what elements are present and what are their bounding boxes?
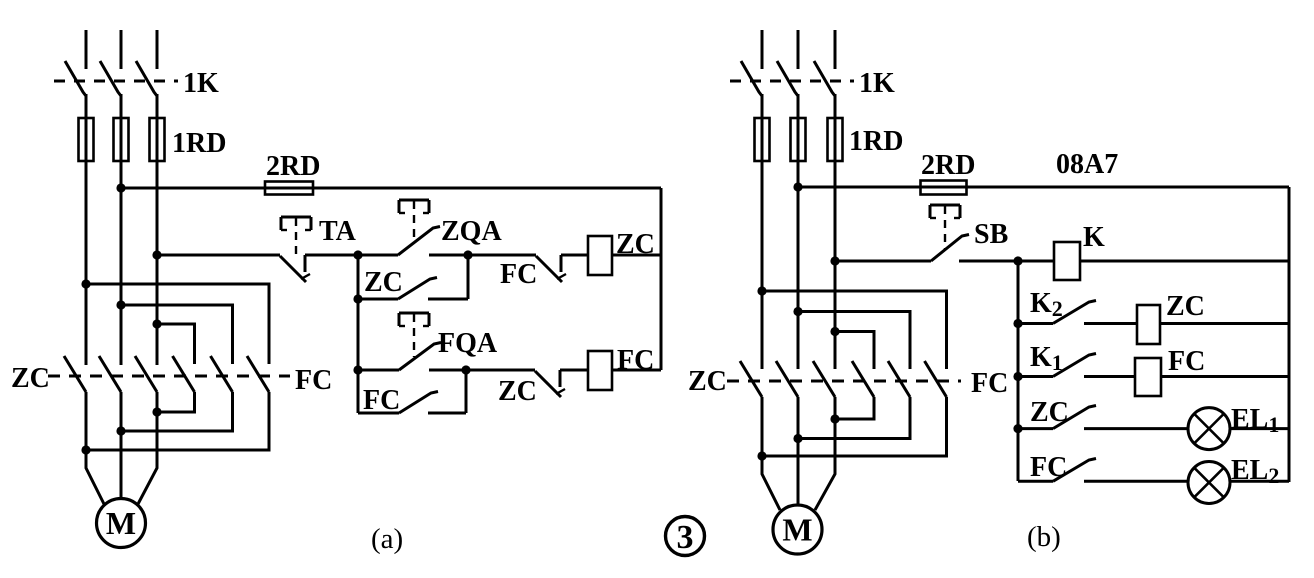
wire FQA to ZC contact (429, 369, 535, 372)
svg-text:1K: 1K (859, 68, 895, 99)
node crossover L3 (b) (830, 327, 839, 336)
svg-text:1RD: 1RD (849, 126, 903, 157)
node ZC branch left (353, 294, 362, 303)
wire FC contact to ZC coil (561, 254, 588, 257)
lamp EL2 (1188, 462, 1230, 504)
wire L3 to motor (b) (815, 397, 835, 510)
wire phase L2 vertical (a) (120, 94, 123, 365)
coil FC (b) (1135, 358, 1161, 396)
wire contact 4 to L3 (b) (835, 397, 874, 419)
node E (1013, 256, 1022, 265)
wire ZQA to FC contact (429, 254, 536, 257)
FQA actuator dashed link (413, 314, 415, 357)
wire crossover L2 to contact 5 (a) (121, 305, 233, 364)
pushbutton FQA NO blade (399, 343, 441, 371)
contactor main contact 1 blade (b) (740, 361, 762, 397)
svg-text:ZC: ZC (364, 267, 403, 298)
contact K2 NO blade (1053, 301, 1096, 324)
contact FC self-holding NO blade (399, 392, 438, 414)
svg-text:2RD: 2RD (266, 151, 320, 182)
wire phase L1 vertical (b) (761, 94, 764, 369)
knife switch 1K pole 3 (156, 30, 159, 69)
node crossover L1 (a) (81, 279, 90, 288)
svg-text:FC: FC (363, 385, 400, 416)
wire TA to node A (305, 254, 358, 257)
1K gang dashed link (54, 80, 178, 83)
svg-text:(b): (b) (1027, 521, 1061, 553)
wire L3 to motor (a) (138, 392, 157, 504)
wire L1 to motor (b) (762, 397, 780, 510)
fuse 1RD pole 1 (b) (755, 118, 770, 161)
coil ZC (a) (588, 236, 612, 275)
wire FC coil to rail (b) (1161, 375, 1289, 378)
wire FC to lamp EL2 (1084, 480, 1188, 483)
wire contact 6 to L1 (b) (762, 397, 947, 456)
motor M (a) (97, 499, 146, 548)
fuse 1RD pole 3 (b) (828, 118, 843, 161)
wire FC branch up to node D (465, 370, 468, 413)
contact ZC normally-closed (rung 2) (535, 371, 561, 397)
contactor main contact 6 blade (b) (925, 361, 947, 397)
svg-text:FC: FC (1168, 346, 1205, 377)
contact row gang dashed link (b) (727, 380, 961, 383)
svg-text:FC: FC (295, 365, 332, 396)
node C (353, 365, 362, 374)
svg-text:1RD: 1RD (172, 128, 226, 159)
svg-text:ZC: ZC (688, 366, 727, 397)
node L3 lower (b) (830, 414, 839, 423)
node L3 lower (a) (152, 407, 161, 416)
node L1 lower (b) (757, 451, 766, 460)
contactor main contact 1 blade (a) (64, 356, 86, 392)
wire K2 rung left (1018, 322, 1053, 325)
1K gang dashed link (b) (730, 80, 854, 83)
SB actuator dashed link (944, 206, 946, 250)
right rail (b) (1288, 187, 1291, 482)
wire crossover L1 to contact 6 (b) (762, 291, 947, 369)
wire node A down to ZC branch (357, 255, 360, 299)
knife switch 1K pole 3 (b) (834, 30, 837, 69)
wire EL1 to rail (1230, 427, 1289, 430)
node L2 tap (b) (793, 182, 802, 191)
wire phase L3 vertical (a) (156, 94, 159, 365)
contact ZC NO blade (b) (1053, 406, 1096, 429)
wire node A to ZQA (358, 254, 398, 257)
svg-text:FC: FC (500, 259, 537, 290)
fuse 2RD (a) (265, 182, 313, 195)
wire FC branch right (428, 412, 466, 415)
contactor main contact 4 blade (a) (173, 356, 195, 392)
svg-text:FC: FC (1030, 452, 1067, 483)
node L2 lower (a) (116, 426, 125, 435)
wire L1 to motor (a) (86, 392, 104, 504)
node L2 lower (b) (793, 434, 802, 443)
pushbutton SB NO blade (931, 235, 969, 262)
pushbutton SB head (930, 204, 960, 207)
wire crossover L2 to contact 5 (b) (798, 312, 910, 370)
wire ZC branch right (428, 298, 468, 301)
svg-text:ZC: ZC (11, 363, 50, 394)
coil ZC (b) (1137, 305, 1160, 344)
svg-text:ZC: ZC (1030, 397, 1069, 428)
contactor main contact 4 blade (b) (852, 361, 874, 397)
knife switch 1K pole 2 (b) (797, 30, 800, 69)
wire K coil to rail (1080, 260, 1289, 263)
wire crossover L3 to contact 4 (b) (835, 332, 874, 370)
wire control feed from L2 (a) (121, 187, 661, 190)
node K1 rung (1013, 372, 1022, 381)
node crossover L2 (b) (793, 307, 802, 316)
wire ZC branch up to node B (467, 255, 470, 299)
fuse 1RD pole 2 (a) (114, 118, 129, 161)
wire contact 5 to L2 (b) (798, 397, 910, 439)
wire phase L1 vertical (a) (85, 94, 88, 365)
wire contact 5 to L2 (a) (121, 392, 233, 431)
contact ZC self-holding NO blade (398, 278, 437, 300)
svg-text:M: M (106, 505, 136, 541)
circuit (b) knife switch 1K pole 1 (761, 30, 764, 69)
wire ZC coil to rail (a) (612, 254, 661, 257)
pushbutton ZQA NO blade (398, 227, 440, 256)
wire ZC branch left (358, 298, 398, 301)
fuse 1RD pole 2 (b) (791, 118, 806, 161)
svg-text:ZQA: ZQA (441, 216, 502, 247)
wire phase L2 vertical (b) (797, 94, 800, 369)
node L1 lower (a) (81, 445, 90, 454)
node A (353, 250, 362, 259)
wire crossover L1 to contact 6 (a) (86, 284, 269, 364)
fuse 2RD (b) (921, 181, 967, 195)
node L3 tap (a) (152, 250, 161, 259)
node L2 tap (a) (116, 183, 125, 192)
pushbutton ZQA head (399, 199, 429, 202)
wire K1 to FC coil (1084, 375, 1135, 378)
svg-text:M: M (782, 512, 812, 548)
wire K2 to ZC coil (1084, 322, 1137, 325)
wire ZC contact to FC coil (560, 369, 588, 372)
node B (463, 250, 472, 259)
wire TA rung from L3 (a) (157, 254, 280, 257)
pushbutton FQA head (399, 312, 429, 315)
node K2 rung (1013, 319, 1022, 328)
svg-text:1K: 1K (183, 68, 219, 99)
svg-text:08A7: 08A7 (1056, 149, 1118, 180)
wire ZC coil to rail (b) (1160, 322, 1289, 325)
wire FC branch left (358, 412, 399, 415)
circuit (a) three-phase supply: knife switch 1K pole 1 (85, 30, 88, 69)
svg-text:FQA: FQA (438, 328, 498, 359)
wire FC rung left (b) (1018, 480, 1053, 483)
contactor main contact 3 blade (a) (135, 356, 157, 392)
wire contact 4 to L3 (a) (157, 392, 195, 412)
wire crossover L3 to contact 4 (a) (157, 324, 195, 364)
contact K1 NO blade (1053, 354, 1096, 377)
wire L2 to motor (b) (797, 397, 800, 506)
ZQA actuator dashed link (413, 201, 415, 243)
node crossover L3 (a) (152, 319, 161, 328)
wire contact 6 to L1 (a) (86, 392, 269, 450)
svg-text:2RD: 2RD (921, 150, 975, 181)
wire FC coil to rail (a) (612, 369, 661, 372)
contactor main contact 2 blade (a) (99, 356, 121, 392)
svg-text:SB: SB (974, 219, 1008, 250)
node D (461, 365, 470, 374)
TA actuator dashed link (295, 218, 297, 256)
pushbutton TA NC blade (280, 256, 306, 282)
fuse 1RD pole 1 (a) (79, 118, 94, 161)
wire L2 to motor (a) (120, 392, 123, 500)
wire control feed from L2 (b) (798, 186, 1289, 189)
wire EL2 to rail (1230, 480, 1289, 483)
contactor main contact 6 blade (a) (247, 356, 269, 392)
wire node C down to FC branch (357, 370, 360, 413)
svg-text:3: 3 (677, 519, 694, 556)
node crossover L1 (b) (757, 286, 766, 295)
contact FC NO blade (b) (1053, 459, 1096, 482)
node L3 tap (b) (830, 256, 839, 265)
wire phase L3 vertical (b) (834, 94, 837, 369)
node bus vertical (b) (1017, 261, 1020, 481)
motor M (b) (773, 505, 822, 554)
svg-text:TA: TA (319, 216, 357, 247)
knife switch 1K pole 2 (120, 30, 123, 69)
wire K1 rung left (1018, 375, 1053, 378)
fuse 1RD pole 3 (a) (150, 118, 165, 161)
contact row gang dashed link (a) (48, 375, 290, 378)
contactor main contact 2 blade (b) (776, 361, 798, 397)
contactor main contact 3 blade (b) (813, 361, 835, 397)
svg-text:ZC: ZC (1166, 291, 1205, 322)
wire SB to node E (959, 260, 1054, 263)
contactor main contact 5 blade (a) (211, 356, 233, 392)
coil K (1054, 242, 1080, 280)
svg-text:ZC: ZC (498, 376, 537, 407)
right rail (a) (660, 188, 663, 370)
wire SB rung from L3 (b) (835, 260, 931, 263)
pushbutton TA head (281, 216, 311, 219)
contact FC normally-closed (rung 1) (536, 256, 562, 282)
wire node down to FQA rung (357, 299, 360, 370)
wire node C to FQA (358, 369, 399, 372)
svg-text:K: K (1083, 222, 1105, 253)
svg-text:FC: FC (971, 368, 1008, 399)
node crossover L2 (a) (116, 300, 125, 309)
wire ZC to lamp EL1 (1084, 427, 1188, 430)
coil FC (a) (588, 351, 612, 390)
node ZC rung (b) (1013, 424, 1022, 433)
svg-text:(a): (a) (371, 523, 403, 555)
contactor main contact 5 blade (b) (888, 361, 910, 397)
wire ZC rung left (b) (1018, 427, 1053, 430)
lamp EL1 (1188, 408, 1230, 450)
figure number 3 circle (666, 517, 705, 556)
